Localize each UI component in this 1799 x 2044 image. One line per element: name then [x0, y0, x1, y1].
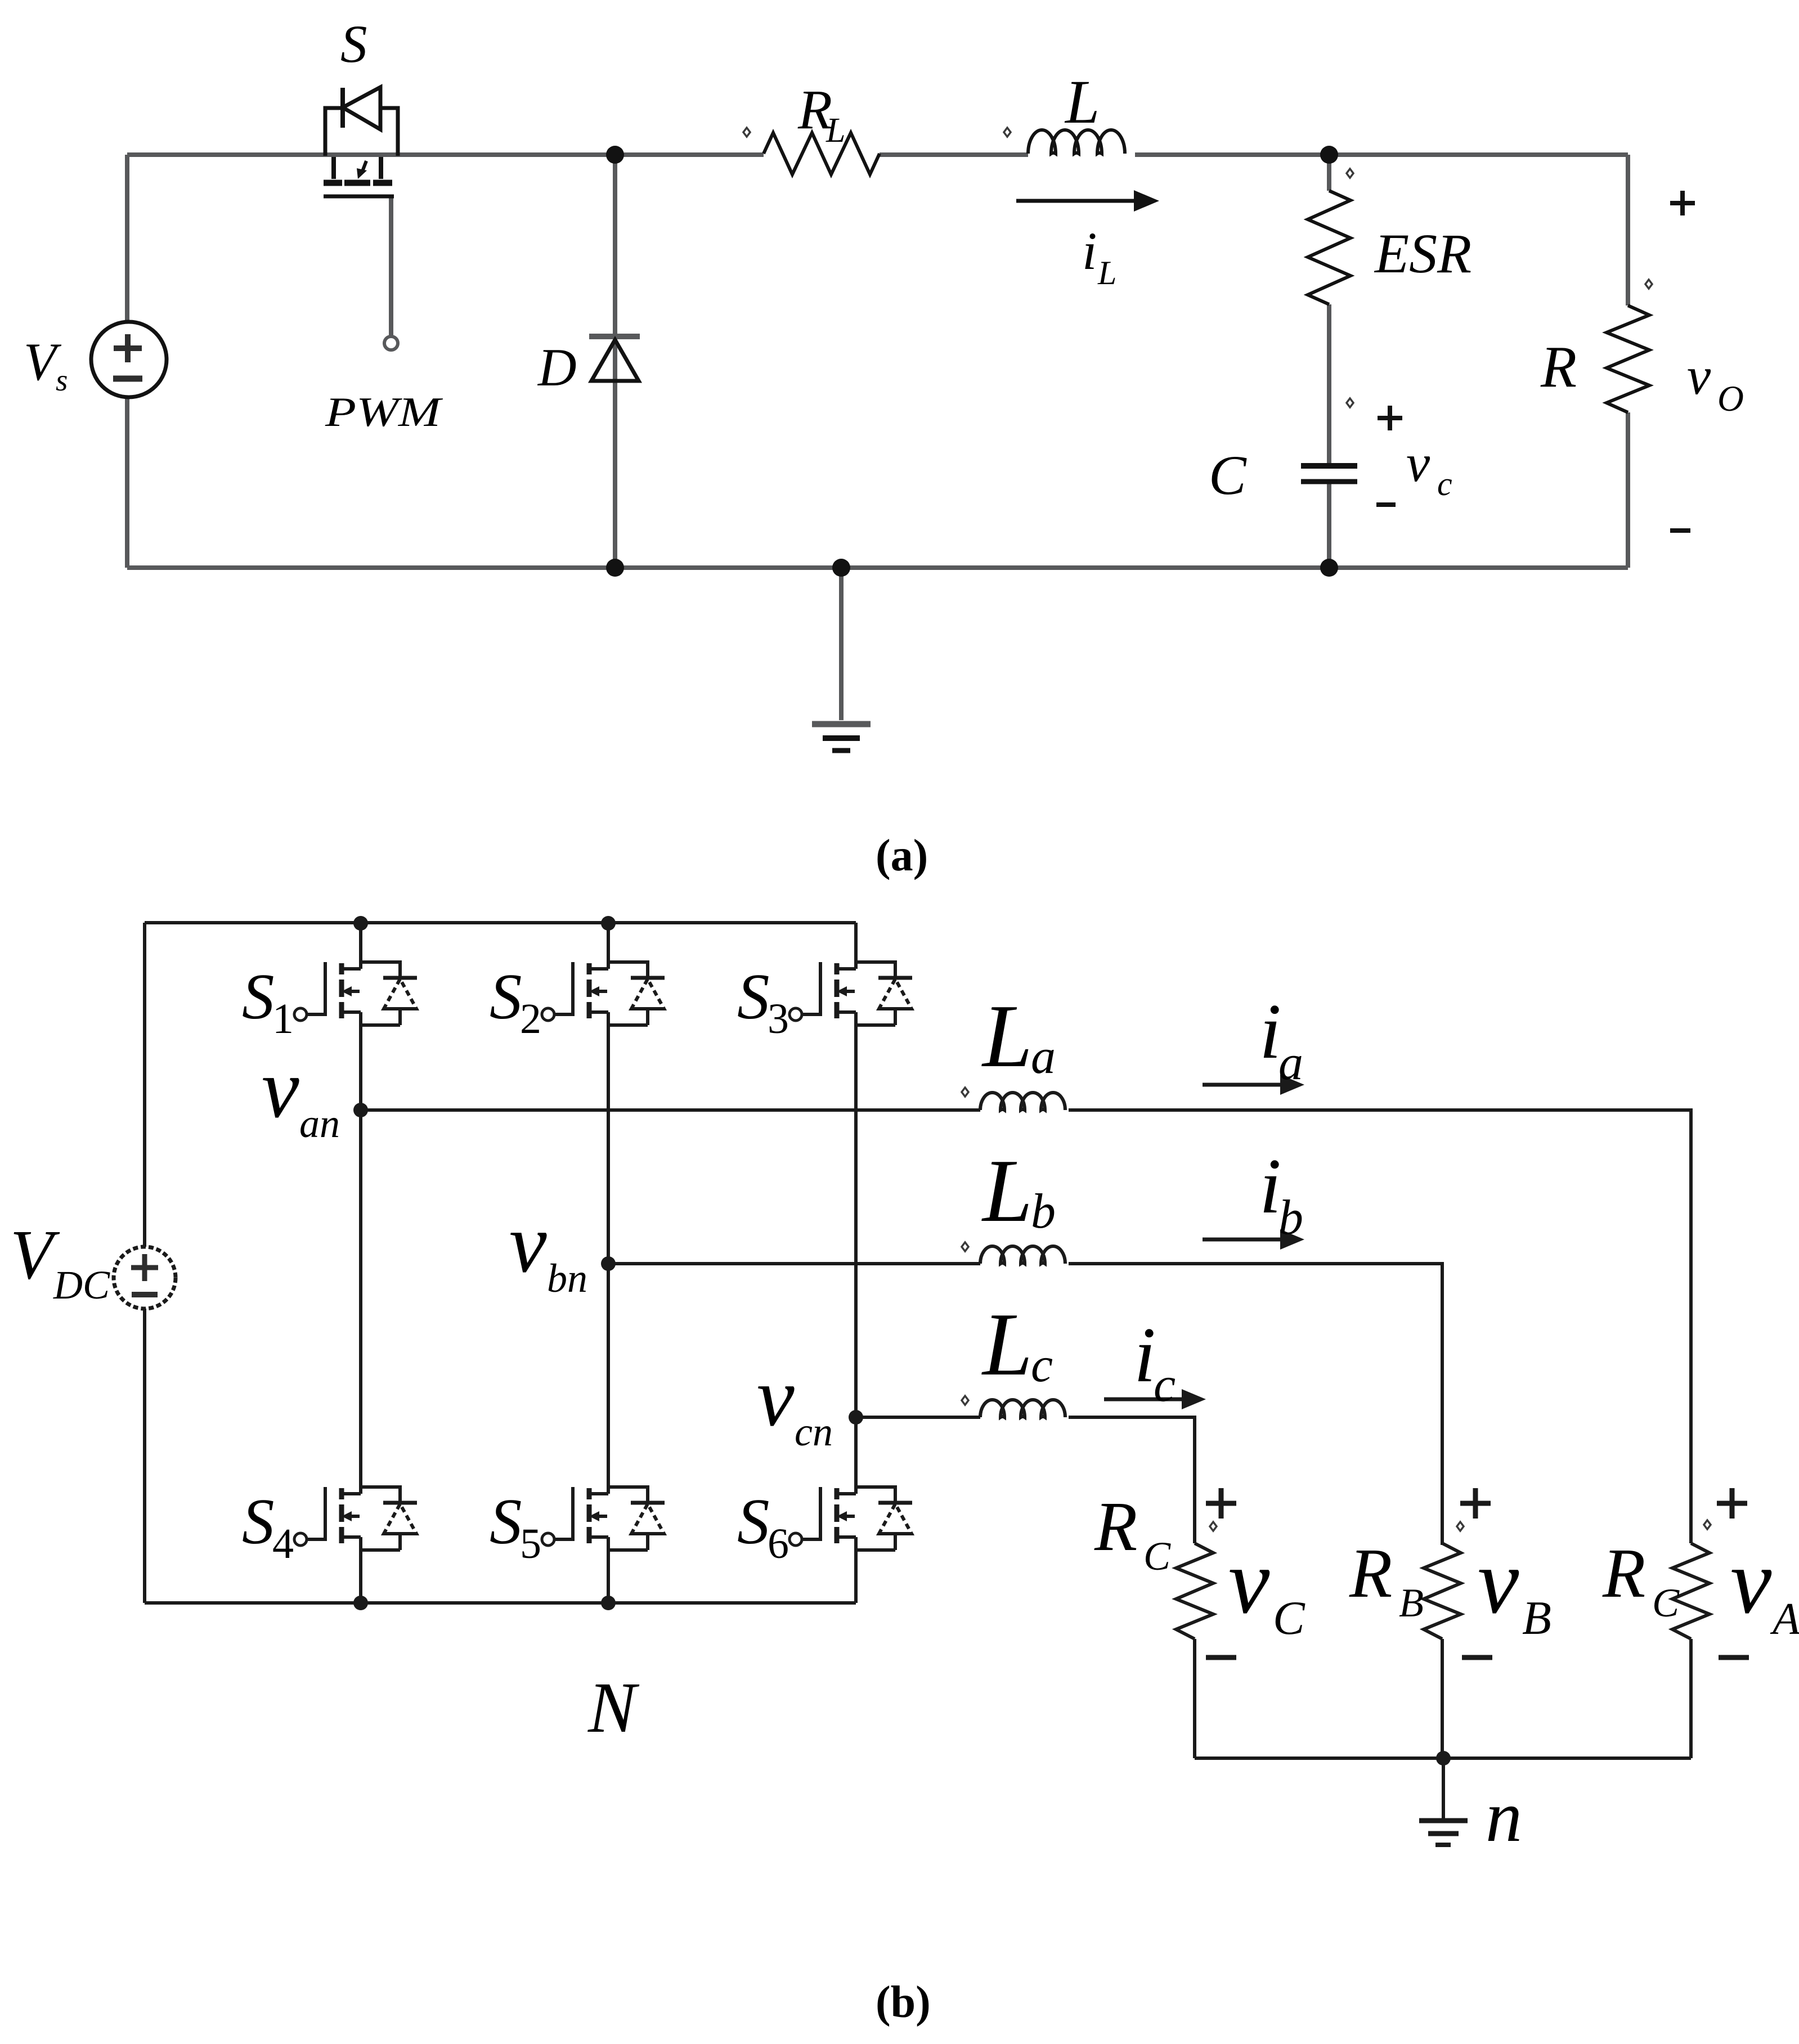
svg-text:S: S [490, 1486, 522, 1557]
svg-text:v: v [509, 1197, 547, 1290]
svg-text:B: B [1399, 1580, 1424, 1625]
svg-text:C: C [1143, 1534, 1171, 1579]
svg-text:2: 2 [520, 995, 541, 1043]
svg-text:L: L [981, 1140, 1033, 1241]
svg-text:L: L [1064, 68, 1100, 136]
svg-text:L: L [981, 1294, 1033, 1394]
svg-text:V: V [10, 1216, 60, 1294]
svg-text:PWM: PWM [325, 389, 444, 435]
svg-text:R: R [1540, 334, 1577, 399]
svg-text:v: v [1228, 1530, 1270, 1633]
svg-text:A: A [1770, 1594, 1799, 1644]
svg-text:C: C [1209, 444, 1247, 506]
svg-text:R: R [1602, 1535, 1645, 1612]
svg-text:S: S [340, 14, 367, 74]
svg-text:3: 3 [768, 995, 789, 1043]
svg-text:n: n [1486, 1776, 1522, 1857]
svg-text:a: a [1278, 1036, 1303, 1090]
svg-text:6: 6 [768, 1520, 789, 1567]
svg-text:cn: cn [795, 1409, 833, 1454]
svg-text:v: v [1478, 1530, 1519, 1633]
svg-text:1: 1 [272, 995, 294, 1043]
svg-text:S: S [737, 1486, 770, 1557]
svg-text:D: D [537, 338, 577, 397]
svg-text:S: S [490, 961, 522, 1032]
svg-text:s: s [56, 363, 68, 397]
svg-text:S: S [242, 961, 275, 1032]
svg-text:R: R [1349, 1535, 1392, 1612]
svg-text:c: c [1154, 1358, 1176, 1412]
svg-text:v: v [1730, 1530, 1772, 1633]
svg-text:i: i [1134, 1311, 1156, 1399]
svg-text:i: i [1082, 221, 1097, 281]
svg-text:(b): (b) [876, 1978, 931, 2027]
svg-text:L: L [1097, 254, 1116, 291]
svg-text:v: v [1406, 433, 1430, 493]
svg-text:a: a [1031, 1030, 1056, 1084]
svg-text:L: L [826, 111, 845, 150]
svg-text:DC: DC [53, 1263, 110, 1308]
svg-text:v: v [262, 1042, 299, 1135]
svg-text:R: R [1094, 1488, 1137, 1566]
svg-text:v: v [757, 1350, 795, 1444]
svg-text:b: b [1278, 1191, 1303, 1245]
svg-text:S: S [242, 1486, 275, 1557]
svg-text:c: c [1031, 1338, 1053, 1392]
svg-text:B: B [1522, 1592, 1551, 1645]
svg-text:S: S [737, 961, 770, 1032]
svg-text:b: b [1031, 1184, 1056, 1239]
svg-text:an: an [299, 1101, 340, 1146]
svg-text:N: N [587, 1668, 640, 1747]
svg-text:4: 4 [272, 1520, 294, 1567]
svg-text:c: c [1437, 465, 1452, 502]
svg-text:v: v [1687, 346, 1711, 406]
svg-text:C: C [1652, 1580, 1680, 1625]
svg-text:bn: bn [547, 1256, 587, 1301]
svg-text:L: L [981, 986, 1033, 1086]
svg-text:O: O [1717, 379, 1744, 419]
svg-text:5: 5 [520, 1520, 541, 1567]
svg-text:ESR: ESR [1374, 222, 1471, 285]
svg-text:(a): (a) [876, 831, 928, 881]
svg-text:C: C [1273, 1592, 1305, 1645]
